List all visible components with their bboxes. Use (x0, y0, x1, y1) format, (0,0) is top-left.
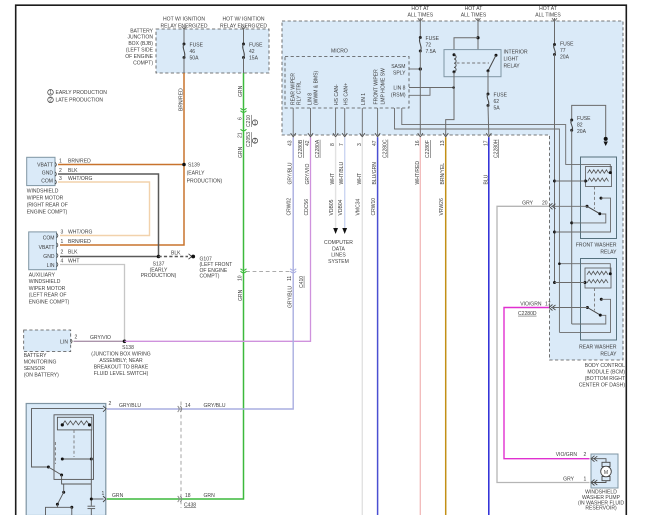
svg-text:LIN 8: LIN 8 (393, 86, 405, 92)
svg-text:ENGINE COMPT): ENGINE COMPT) (27, 210, 68, 216)
svg-text:42: 42 (249, 49, 255, 55)
washer pump pin 1 arrow (563, 477, 597, 486)
fuse 72 7.5A (419, 36, 440, 55)
svg-text:FUSE: FUSE (190, 43, 204, 49)
svg-text:1: 1 (49, 90, 52, 96)
micro pin label lin 8 (wwm & bms) (308, 70, 320, 105)
svg-text:RELAY: RELAY (504, 64, 521, 70)
svg-text:5A: 5A (494, 106, 501, 112)
label GRN middle (rotated) (238, 146, 244, 158)
svg-text:GND: GND (43, 254, 55, 260)
legend late production (48, 97, 104, 104)
wire: fuse 42 to box bottom (243, 58, 245, 74)
svg-text:VDB05: VDB05 (329, 199, 335, 215)
svg-text:LIN: LIN (60, 339, 68, 345)
svg-text:COMPUTER: COMPUTER (324, 240, 353, 246)
svg-text:(RIGHT REAR OF: (RIGHT REAR OF (27, 203, 68, 209)
wire: sasm sply to fuse 72 output (409, 67, 422, 70)
module switch blade 2 (46, 484, 74, 515)
svg-text:BLK: BLK (68, 250, 78, 256)
wire: fuse 77 bus down to relay coils (554, 55, 556, 283)
module pin 1 internal wire and capacitor (88, 498, 104, 515)
auxiliary windshield wiper motor (29, 232, 58, 270)
svg-text:3: 3 (59, 176, 62, 182)
svg-text:1: 1 (254, 120, 257, 126)
wire WHT aux pin 4 to S138 (60, 265, 125, 342)
module dashed actuator link to blade 1 (54, 442, 56, 464)
rear relay blade contact wire from fuse 82 (572, 315, 606, 324)
svg-text:15A: 15A (249, 56, 259, 62)
svg-text:C2280B: C2280B (298, 139, 304, 158)
svg-text:SPLY: SPLY (393, 71, 406, 77)
wire BRN/YEL pin 13 down off page (445, 137, 447, 515)
splice S139 (182, 163, 222, 185)
svg-text:2: 2 (584, 452, 587, 458)
svg-text:C2280F: C2280F (425, 140, 431, 158)
windshield washer pump box (591, 454, 618, 488)
connector C2280 pin 20 GRY out (522, 201, 587, 210)
wire WHT/BLU pin 7 to computer data lines (342, 137, 347, 234)
svg-text:BODY CONTROL: BODY CONTROL (585, 363, 625, 369)
washer pump internal wires (592, 459, 606, 483)
svg-text:BLK: BLK (68, 168, 78, 174)
label GRN lower (rotated) (238, 289, 244, 301)
module pin 2 arrow (103, 401, 112, 412)
wire WHT pin 8 to computer data lines (333, 137, 338, 234)
svg-text:20A: 20A (560, 55, 570, 61)
svg-text:BRN/RED: BRN/RED (68, 159, 91, 165)
svg-text:INTERIOR: INTERIOR (504, 50, 528, 56)
pin 43 labels (287, 139, 305, 215)
svg-text:(LEFT REAR OF: (LEFT REAR OF (29, 293, 67, 299)
battery monitoring sensor (24, 330, 78, 352)
svg-text:ALL TIMES: ALL TIMES (535, 13, 561, 19)
wire: fuse 77 bus to rear coil (553, 281, 585, 284)
svg-text:SASM: SASM (391, 64, 405, 70)
svg-text:GRY/VIO: GRY/VIO (305, 163, 311, 184)
svg-text:JUNCTION: JUNCTION (127, 35, 153, 41)
battery junction box (BJB) (156, 29, 269, 73)
wire BLU pin 17 down off page (488, 137, 490, 515)
svg-text:GRN: GRN (238, 289, 244, 301)
svg-text:72: 72 (426, 43, 432, 49)
svg-text:2: 2 (75, 334, 78, 340)
svg-text:82: 82 (577, 123, 583, 129)
svg-text:WIPER MOTOR: WIPER MOTOR (29, 286, 66, 292)
svg-text:7.5A: 7.5A (426, 49, 437, 55)
svg-text:CENTER OF DASH): CENTER OF DASH) (579, 383, 626, 389)
svg-text:WHT/ORG: WHT/ORG (68, 230, 92, 236)
svg-text:HOT AT: HOT AT (411, 6, 429, 12)
connector C2053 on GRN (late production) (238, 129, 258, 147)
svg-text:LIN 1: LIN 1 (361, 93, 367, 105)
svg-text:SENSOR: SENSOR (24, 366, 46, 372)
wire: lin 8 (rsm) to interior light relay coil (409, 86, 455, 95)
svg-text:GRY: GRY (563, 477, 574, 483)
svg-text:(BOTTOM RIGHT: (BOTTOM RIGHT (585, 376, 625, 382)
svg-text:C438: C438 (184, 503, 196, 509)
svg-text:FUSE: FUSE (426, 36, 440, 42)
svg-text:FRONT WIPER: FRONT WIPER (374, 69, 380, 105)
svg-text:14: 14 (185, 403, 191, 409)
svg-text:GRY/VIO: GRY/VIO (90, 335, 111, 341)
hot at all times header 1 (408, 6, 434, 19)
front relay switch (586, 197, 603, 216)
wire BRN/RED motor pin 1 to S139 (58, 159, 184, 165)
wire BLK dashed S137 to G107 (159, 250, 189, 256)
pin 13 labels (439, 140, 446, 215)
splice S138 (91, 340, 151, 377)
svg-text:C2053: C2053 (246, 132, 252, 147)
svg-text:COMPT): COMPT) (133, 60, 153, 66)
wire GRY to washer pump pin 1 (497, 206, 590, 482)
washer pump pin 2 arrow (556, 452, 598, 462)
wire BLK aux pin 2 to S137 (60, 256, 159, 258)
svg-text:GRY/BLU: GRY/BLU (288, 162, 294, 184)
svg-text:1: 1 (61, 239, 64, 245)
wire BLK motor pin 2 down to S137 (58, 168, 159, 256)
wire WHT/ORG motor pin 3 to aux motor pin 3 (58, 176, 150, 235)
micro pin label lin 1 (361, 93, 367, 105)
svg-text:46: 46 (190, 49, 196, 55)
wire: feed to fuse 77 (552, 18, 557, 45)
wire: feed to interior light relay (454, 18, 481, 58)
computer data lines system label (324, 240, 353, 265)
svg-text:LATE PRODUCTION: LATE PRODUCTION (56, 98, 104, 104)
svg-text:77: 77 (560, 48, 566, 54)
washer pump label (578, 490, 624, 512)
wire: feed to fuse 72 (418, 18, 423, 38)
svg-text:1: 1 (584, 477, 587, 483)
interior light relay dashed link (457, 62, 490, 64)
svg-text:1: 1 (102, 491, 105, 497)
svg-text:GRY/BLU: GRY/BLU (204, 403, 226, 409)
svg-text:20A: 20A (577, 129, 587, 135)
MICRO box (285, 49, 409, 109)
hot w/ ignition header 2 (220, 17, 267, 30)
svg-text:DATA: DATA (332, 246, 345, 252)
BCM bottom edge pin arrows (291, 133, 492, 137)
rear relay switch (586, 298, 603, 317)
micro pin label front wiper lmp home sw (374, 68, 387, 105)
svg-text:WINDSHIELD: WINDSHIELD (27, 189, 59, 195)
micro pin label sasm sply (391, 64, 406, 77)
svg-text:HS CAN-: HS CAN- (334, 84, 340, 105)
module relay coil (57, 417, 91, 430)
auxiliary motor label (29, 272, 70, 305)
svg-text:WHT: WHT (68, 259, 80, 265)
svg-text:50A: 50A (190, 56, 200, 62)
svg-text:18: 18 (185, 493, 191, 499)
BJB label (125, 28, 153, 66)
micro internal wire a to front washer relay coil (402, 108, 611, 173)
micro pin stubs to BCM edge (293, 108, 377, 135)
svg-text:HOT W/ IGNITION: HOT W/ IGNITION (223, 17, 265, 23)
wire VIO/GRN to washer pump pin 2 (504, 308, 590, 459)
svg-text:C2280A: C2280A (315, 139, 321, 158)
hot at all times header 3 (535, 6, 561, 19)
svg-text:COMPT): COMPT) (200, 274, 220, 280)
svg-text:(EARLY: (EARLY (187, 171, 205, 177)
battery monitoring sensor label (24, 353, 59, 379)
svg-text:GRN: GRN (238, 146, 244, 158)
svg-text:VRW26: VRW26 (439, 198, 445, 215)
front relay dashed link (594, 187, 596, 210)
rear washer relay box (579, 259, 617, 358)
micro pin label hs can- (334, 84, 340, 105)
wire GRY/VIO sensor to S138 (74, 335, 125, 342)
hot at all times header 2 (461, 6, 487, 19)
svg-text:C2280D: C2280D (518, 311, 537, 317)
pin 3 labels (356, 143, 363, 216)
label BRN/RED (rotated) (179, 88, 185, 111)
windshield wiper motor label (27, 189, 68, 216)
svg-text:(ON BATTERY): (ON BATTERY) (24, 373, 59, 379)
svg-text:ASSEMBLY; NEAR: ASSEMBLY; NEAR (99, 358, 143, 364)
wire: fuse 46 to box bottom (183, 58, 185, 74)
svg-text:GRN: GRN (204, 493, 216, 499)
wire WHT/RED pin 16 down off page (419, 137, 421, 515)
svg-text:FRONT WASHER: FRONT WASHER (576, 243, 617, 249)
pin 42 labels (304, 139, 321, 215)
svg-text:BATTERY: BATTERY (24, 353, 47, 359)
connector C438 (112, 402, 226, 509)
svg-text:C2280H: C2280H (493, 139, 499, 158)
svg-text:RESERVOIR): RESERVOIR) (585, 506, 617, 512)
front washer relay coil (584, 167, 612, 187)
svg-text:20: 20 (542, 201, 548, 207)
svg-text:21: 21 (238, 132, 244, 138)
svg-text:WIPER MOTOR: WIPER MOTOR (27, 196, 64, 202)
front relay NO contact wire from fuse77 bus (553, 198, 611, 233)
aux pin labels (61, 230, 93, 265)
svg-text:FUSE: FUSE (494, 93, 508, 99)
svg-text:HOT AT: HOT AT (465, 6, 483, 12)
wire: feed into fuse 46 (182, 26, 187, 44)
wire BRN/RED: fuse 46 down to S139 and aux motor (60, 73, 184, 245)
fuse 82 20A (570, 116, 591, 135)
svg-text:1: 1 (59, 159, 62, 165)
micro pin label rear wiper rly ctrl (291, 73, 303, 105)
svg-text:COM: COM (43, 236, 55, 242)
svg-text:LIN: LIN (47, 263, 55, 269)
rear relay dashed link (594, 288, 596, 311)
svg-text:PRODUCTION): PRODUCTION) (141, 273, 177, 279)
module internal contact row (61, 458, 93, 461)
module dashed actuator link to contact row (73, 430, 75, 457)
svg-text:VIO/GRN: VIO/GRN (556, 452, 578, 458)
module internal bus wire (90, 430, 92, 506)
svg-text:ENGINE COMPT): ENGINE COMPT) (29, 300, 70, 306)
bottom left module outer box (26, 404, 106, 515)
svg-text:GRY/BLU: GRY/BLU (288, 286, 294, 308)
svg-text:RELAY: RELAY (600, 352, 617, 358)
fuse 62 5A (487, 93, 508, 112)
svg-text:GRN: GRN (238, 85, 244, 97)
svg-text:CDC56: CDC56 (304, 199, 310, 216)
svg-text:42: 42 (305, 140, 311, 146)
svg-text:62: 62 (494, 99, 500, 105)
svg-text:BRN/RED: BRN/RED (179, 88, 185, 111)
svg-text:FLUID LEVEL SWITCH): FLUID LEVEL SWITCH) (94, 371, 149, 377)
fuse 42 15A (242, 43, 263, 62)
pin 7 labels (338, 143, 345, 216)
svg-text:LINES: LINES (331, 253, 346, 259)
svg-text:VBATT: VBATT (37, 162, 53, 168)
svg-text:RELAY: RELAY (600, 250, 617, 256)
washer pump motor (601, 462, 612, 480)
svg-text:EARLY PRODUCTION: EARLY PRODUCTION (56, 90, 108, 96)
svg-text:6: 6 (238, 117, 244, 120)
wire GRN: fuse 42 down to module pin 1 (107, 73, 244, 499)
wire: relay coil down to pin 13 (446, 72, 454, 135)
svg-text:CRW10: CRW10 (371, 198, 377, 216)
module internal wire to pin 2 (32, 409, 104, 467)
svg-text:BOX (BJB): BOX (BJB) (128, 41, 153, 47)
wire: fuse 77 bus to front coil (553, 180, 586, 183)
wire: fuse 62 down to pin 17 (487, 106, 490, 135)
svg-text:C410: C410 (299, 276, 305, 288)
wire GRY/VIO S138 to micro pin 42 (125, 137, 311, 341)
connector C2280D pin 17 VIO/GRN out (518, 302, 587, 317)
svg-text:(RSM): (RSM) (391, 93, 406, 99)
svg-text:LIGHT: LIGHT (504, 57, 519, 63)
ground G107 (189, 254, 233, 280)
svg-text:HS CAN+: HS CAN+ (343, 83, 349, 105)
pin 16 labels (415, 140, 431, 184)
module pin 1 arrow (102, 491, 107, 502)
svg-text:VMC34: VMC34 (356, 198, 362, 215)
svg-text:11: 11 (287, 276, 293, 281)
interior light relay box (444, 50, 528, 77)
pin 47 labels (371, 139, 389, 215)
fuse 77 20A (553, 42, 574, 61)
front relay blade contact wire from fuse 82 (570, 214, 606, 224)
connector C210 on GRN (early production) (238, 108, 258, 127)
legend early production (48, 90, 108, 97)
module relay sub-box (54, 415, 94, 480)
svg-text:GND: GND (42, 171, 54, 177)
svg-text:CRW02: CRW02 (287, 198, 293, 216)
svg-text:BLK: BLK (171, 250, 181, 256)
svg-text:43: 43 (288, 140, 294, 146)
svg-text:(LEFT SIDE: (LEFT SIDE (126, 48, 154, 54)
rear relay NO contact wire from micro wire b (559, 299, 610, 332)
BCM outer dashed box border (282, 21, 623, 360)
wire: feed into fuse 42 (241, 26, 246, 44)
svg-text:ALL TIMES: ALL TIMES (461, 13, 487, 19)
micro pin label hs can+ (343, 83, 349, 105)
BCM label (579, 363, 626, 389)
svg-text:MODULE (BCM): MODULE (BCM) (587, 369, 625, 375)
svg-text:3: 3 (61, 230, 64, 236)
pin 17 labels (483, 139, 499, 184)
svg-text:M: M (604, 470, 608, 476)
svg-text:2: 2 (109, 401, 112, 407)
svg-text:WHT/ORG: WHT/ORG (68, 176, 92, 182)
svg-text:VDB04: VDB04 (338, 199, 344, 215)
svg-text:VBATT: VBATT (39, 245, 55, 251)
fuse 82 feed goalpost with continuation arrow (572, 105, 608, 146)
svg-text:S139: S139 (188, 163, 200, 169)
windshield wiper motor (27, 157, 57, 185)
front washer relay box (576, 157, 617, 256)
micro internal wire b to rear washer relay coil (395, 108, 611, 332)
wire: relay switch down to fuse 62 (487, 71, 489, 94)
svg-text:MICRO: MICRO (331, 49, 348, 55)
wire GRY/BLU module pin 2 to micro pin 43 (107, 137, 293, 409)
svg-text:FUSE: FUSE (560, 42, 574, 48)
wire: fuse 82 down to relay contacts (571, 130, 573, 324)
wire WHT pin 3 down off page (361, 137, 363, 515)
svg-text:(WWM & BMS): (WWM & BMS) (313, 70, 319, 105)
splice S137 (141, 255, 177, 279)
svg-text:2: 2 (59, 168, 62, 174)
svg-text:OF ENGINE: OF ENGINE (125, 54, 153, 60)
svg-text:FUSE: FUSE (249, 43, 263, 49)
svg-text:RLY CTRL: RLY CTRL (296, 81, 302, 105)
svg-text:2: 2 (49, 98, 52, 104)
svg-text:BATTERY: BATTERY (130, 28, 153, 34)
label GRN upper (rotated) (238, 85, 244, 97)
micro pin label lin 8 (rsm) (391, 86, 406, 99)
module switch blade 1 (47, 466, 91, 485)
svg-text:FUSE: FUSE (577, 116, 591, 122)
svg-text:S138: S138 (122, 345, 134, 351)
svg-text:C2280C: C2280C (383, 139, 389, 158)
BCM outer dashed box fill (L-shape) (282, 21, 623, 360)
pin 8 labels (329, 143, 336, 216)
svg-text:BRN/RED: BRN/RED (68, 239, 91, 245)
svg-text:2: 2 (254, 139, 257, 145)
svg-text:GRY/BLU: GRY/BLU (119, 403, 141, 409)
svg-text:REAR WASHER: REAR WASHER (579, 345, 617, 351)
hot w/ ignition header 1 (161, 17, 208, 30)
svg-text:HOT AT: HOT AT (539, 6, 557, 12)
svg-text:HOT W/ IGNITION: HOT W/ IGNITION (163, 17, 205, 23)
svg-text:(JUNCTION BOX WIRING: (JUNCTION BOX WIRING (91, 351, 151, 357)
svg-text:GRY: GRY (522, 201, 533, 207)
rear washer relay coil (584, 268, 612, 288)
svg-text:BREAKOUT TO BRAKE: BREAKOUT TO BRAKE (94, 364, 149, 370)
svg-text:ALL TIMES: ALL TIMES (408, 13, 434, 19)
svg-text:LMP HOME SW: LMP HOME SW (381, 68, 387, 105)
svg-text:GRN: GRN (112, 493, 124, 499)
label GRY/BLU lower (rotated) (288, 286, 294, 308)
svg-text:MONITORING: MONITORING (24, 360, 57, 366)
interior light relay switch (487, 54, 498, 73)
svg-text:PRODUCTION): PRODUCTION) (187, 179, 223, 185)
fuse 46 50A (183, 43, 204, 62)
svg-text:AUXILIARY: AUXILIARY (29, 272, 56, 278)
svg-text:C210: C210 (246, 115, 252, 127)
svg-text:SYSTEM: SYSTEM (328, 259, 349, 265)
interior light relay coil (453, 53, 457, 73)
svg-text:COM: COM (41, 179, 53, 185)
svg-text:4: 4 (61, 259, 64, 265)
wire BLU/GRN pin 47 down off page (377, 137, 379, 515)
wire: fuse 72 down to pin 16 (419, 51, 421, 135)
svg-text:2: 2 (61, 250, 64, 256)
svg-text:WINDSHIELD: WINDSHIELD (29, 279, 61, 285)
svg-text:10: 10 (238, 275, 244, 281)
connector C410 (238, 269, 305, 288)
